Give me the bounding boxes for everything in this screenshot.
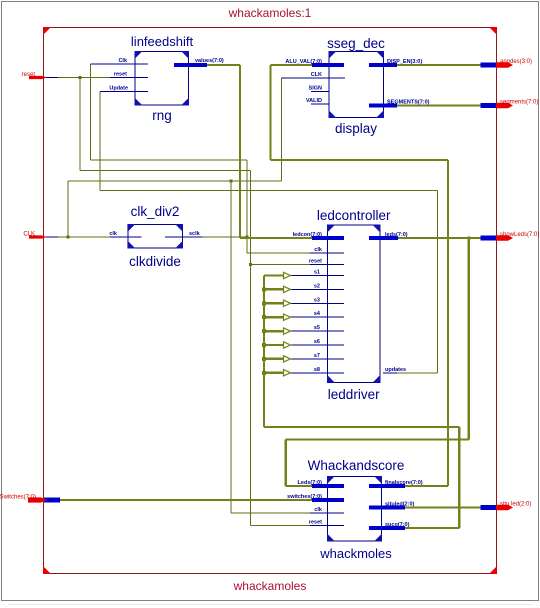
svg-text:finalscore(7:0): finalscore(7:0) bbox=[385, 480, 423, 486]
svg-text:s6: s6 bbox=[314, 339, 320, 345]
svg-text:suco(7:0): suco(7:0) bbox=[385, 522, 410, 528]
svg-text:updates: updates bbox=[385, 367, 406, 373]
svg-text:anodes(3:0): anodes(3:0) bbox=[500, 59, 532, 65]
svg-text:s4: s4 bbox=[314, 311, 321, 317]
svg-text:Whackandscore: Whackandscore bbox=[308, 458, 405, 473]
svg-text:DISP_EN(3:0): DISP_EN(3:0) bbox=[387, 59, 422, 65]
svg-text:leddriver: leddriver bbox=[328, 387, 380, 402]
svg-text:s7: s7 bbox=[314, 353, 320, 359]
svg-text:clk_div2: clk_div2 bbox=[131, 204, 180, 219]
svg-text:sclk: sclk bbox=[189, 231, 201, 237]
svg-text:reset: reset bbox=[114, 72, 127, 78]
svg-text:CLK: CLK bbox=[311, 72, 322, 78]
svg-text:whackmoles: whackmoles bbox=[319, 546, 392, 561]
svg-text:whackamoles: whackamoles bbox=[233, 579, 307, 593]
svg-text:s1: s1 bbox=[314, 270, 320, 276]
svg-text:whackamoles:1: whackamoles:1 bbox=[228, 6, 312, 20]
svg-text:SEGMENTS(7:0): SEGMENTS(7:0) bbox=[387, 100, 430, 106]
svg-text:showLeds(7:0): showLeds(7:0) bbox=[500, 232, 539, 238]
svg-text:situled(2:0): situled(2:0) bbox=[385, 502, 415, 508]
svg-text:Switches(7:0): Switches(7:0) bbox=[0, 495, 36, 501]
svg-text:VALID: VALID bbox=[306, 98, 322, 104]
svg-text:display: display bbox=[335, 121, 377, 136]
svg-text:sseg_dec: sseg_dec bbox=[327, 36, 385, 51]
svg-text:rng: rng bbox=[152, 108, 172, 123]
svg-text:clk: clk bbox=[109, 231, 118, 237]
svg-text:ledcontroller: ledcontroller bbox=[317, 208, 391, 223]
svg-text:reset: reset bbox=[309, 259, 322, 265]
svg-text:switches(7:0): switches(7:0) bbox=[287, 494, 322, 500]
svg-text:s5: s5 bbox=[314, 325, 320, 331]
svg-text:segments(7:0): segments(7:0) bbox=[500, 100, 538, 106]
svg-text:s3: s3 bbox=[314, 297, 320, 303]
svg-text:s2: s2 bbox=[314, 283, 320, 289]
svg-text:CLK: CLK bbox=[23, 232, 35, 238]
svg-text:clkdivide: clkdivide bbox=[129, 254, 181, 269]
svg-text:ALU_VAL(7:0): ALU_VAL(7:0) bbox=[285, 59, 322, 65]
svg-text:reset: reset bbox=[309, 520, 322, 526]
svg-text:clk: clk bbox=[314, 247, 323, 253]
svg-text:SIGN: SIGN bbox=[309, 86, 322, 92]
svg-text:Clk: Clk bbox=[118, 58, 128, 64]
svg-text:reset: reset bbox=[22, 72, 36, 78]
svg-text:leds(7:0): leds(7:0) bbox=[385, 232, 408, 238]
svg-text:s8: s8 bbox=[314, 367, 320, 373]
svg-text:linfeedshift: linfeedshift bbox=[131, 34, 194, 49]
svg-text:situ led(2:0): situ led(2:0) bbox=[500, 502, 531, 508]
svg-text:ledcon(7:0): ledcon(7:0) bbox=[293, 232, 323, 238]
svg-text:clk: clk bbox=[314, 507, 323, 513]
svg-text:Leds(7:0): Leds(7:0) bbox=[298, 480, 323, 486]
svg-text:Update: Update bbox=[109, 86, 128, 92]
svg-text:values(7:0): values(7:0) bbox=[195, 58, 224, 64]
